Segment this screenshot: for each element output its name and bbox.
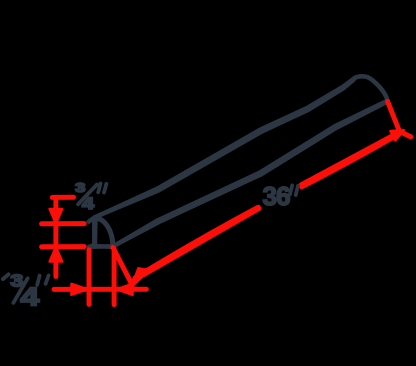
svg-text:3: 3: [75, 181, 85, 195]
svg-text:4: 4: [82, 194, 94, 213]
red bottom dimension line: [54, 287, 146, 292]
red leader bar to top 3/4 label: [52, 195, 73, 200]
red arrowhead near end of 36in dimension: [134, 268, 144, 283]
molding profile bottom edge: [89, 246, 115, 247]
red far diagonal extension line: [388, 101, 399, 130]
label 3/4 inch top: fraction slash: [78, 185, 97, 205]
red near arrow barb: [134, 271, 145, 282]
red extension line below profile left: [87, 250, 92, 304]
red 36in dimension shaft left segment: [134, 207, 259, 280]
red arrowhead far end of 36in dimension: [391, 130, 404, 140]
red near diagonal extension line: [113, 247, 133, 285]
molding profile left vertical edge: [94, 218, 95, 247]
svg-text:4: 4: [20, 284, 39, 312]
label 3/4 inch bottom: fraction slash: [13, 278, 27, 302]
stray sketch tick bottom left: [3, 274, 9, 279]
molding bottom front long edge second sketch pass: [115, 102, 387, 245]
label 36 inch: inch marks: [290, 185, 298, 195]
molding bottom front long edge: [113, 101, 387, 247]
molding far end rounded cap: [355, 76, 388, 101]
red arrowhead up at bottom extension: [50, 247, 62, 261]
molding top long edge: [89, 78, 355, 222]
red extension line at profile top: [42, 221, 85, 226]
red 36in dimension shaft right segment: [301, 132, 400, 187]
label 3/4 inch bottom: inch marks: [37, 275, 48, 284]
label 3/4 inch top: inch marks: [98, 183, 106, 192]
molding profile quarter-round arc: [95, 218, 114, 247]
svg-text:36: 36: [263, 181, 291, 211]
molding top long edge second sketch pass: [95, 80, 354, 217]
red arrowhead left on bottom dimension: [117, 284, 133, 295]
red arrowhead down at top extension: [50, 209, 62, 223]
red vertical dimension shaft: [53, 197, 58, 276]
red extension line at profile bottom: [42, 244, 85, 249]
red arrowhead right on bottom dimension: [72, 284, 88, 295]
red far serif stub: [400, 132, 411, 137]
red extension line below profile right: [112, 250, 117, 305]
